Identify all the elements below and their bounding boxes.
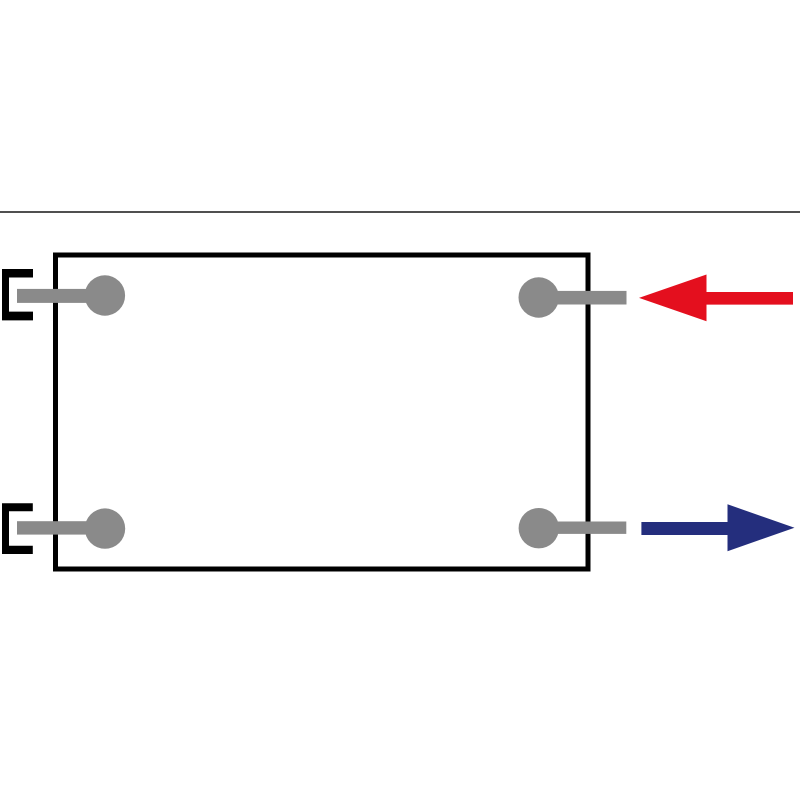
connection boss top-right: [519, 277, 559, 317]
connection boss bottom-left: [85, 508, 125, 548]
wall bracket bottom: [2, 503, 33, 554]
wall bracket top: [2, 269, 33, 320]
pipe top-right: [539, 291, 627, 305]
pipe top-left: [17, 289, 105, 303]
radiator body: [56, 255, 589, 569]
connection boss bottom-right: [519, 508, 559, 548]
wall line: [0, 211, 800, 213]
pipe bottom-left: [17, 521, 105, 534]
pipe bottom-right: [539, 522, 627, 534]
return arrow blue: [641, 504, 794, 551]
connection boss top-left: [85, 275, 125, 315]
flow arrow red: [639, 275, 793, 322]
